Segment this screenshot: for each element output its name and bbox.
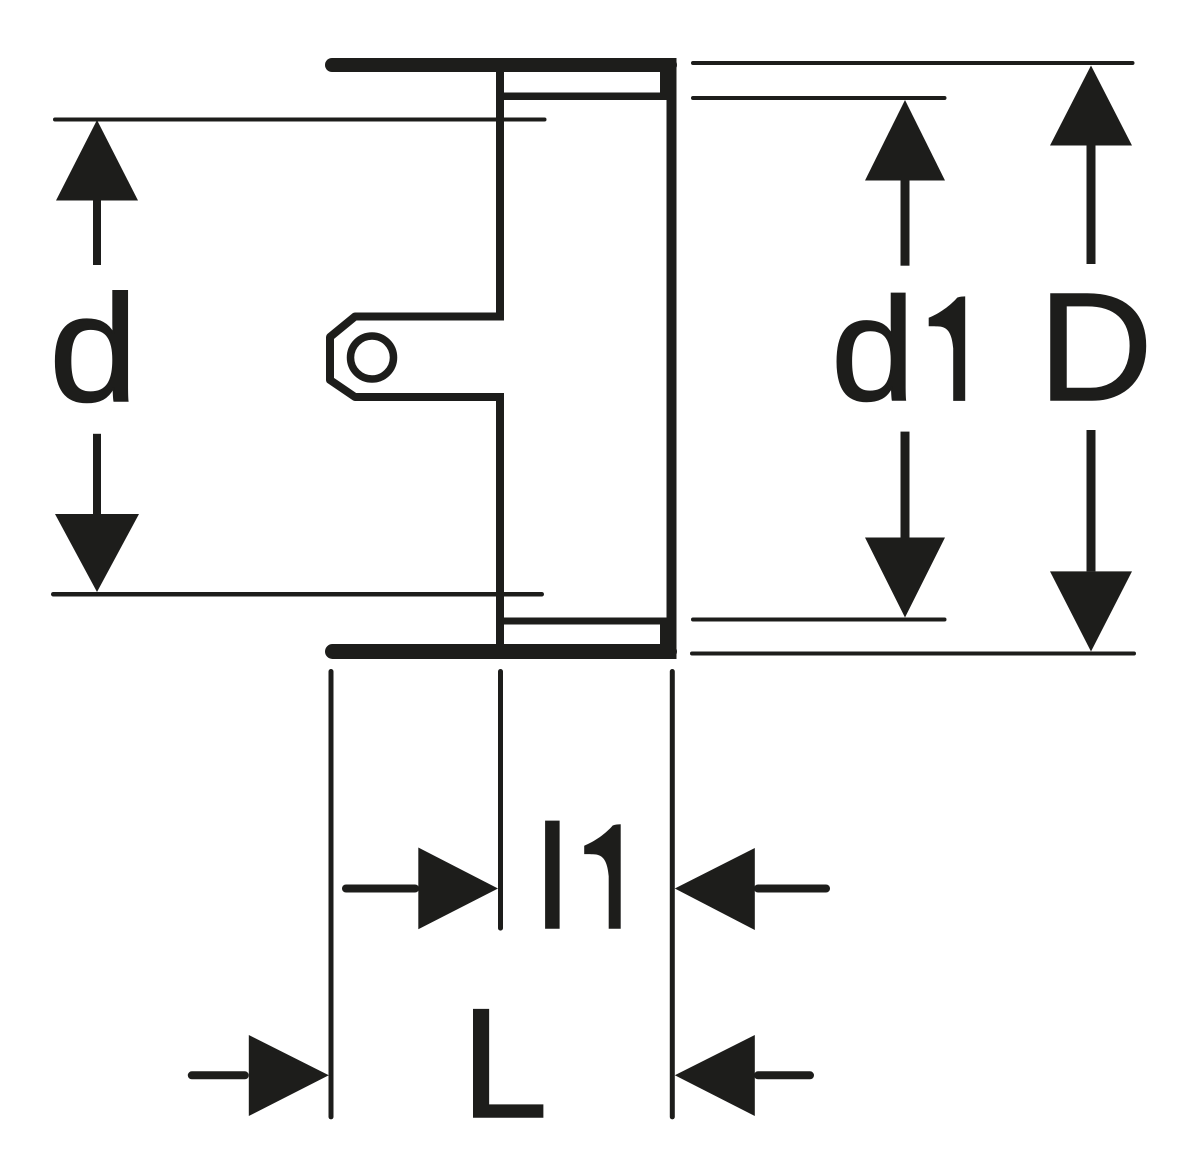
extension line right [670,669,675,1119]
svg-text:d: d [49,264,138,434]
dim line d top [53,118,547,122]
svg-text:D: D [1038,261,1153,433]
dim line d1 top [691,96,947,100]
dim line d1 bottom [691,618,947,622]
arrow L left [188,1071,249,1079]
arrow l1 right [675,848,755,930]
fitting inner bottom lip [500,618,671,625]
arrow D down [1087,430,1096,571]
fitting bottom wall [325,644,677,659]
fitting central web lower [496,393,504,659]
dim line d bottom [51,592,544,597]
arrow d1 up [865,100,945,181]
fitting inner bottom lip end connector [660,618,669,651]
svg-text:l: l [536,796,569,960]
extension line left [329,669,334,1119]
extension line middle [498,669,503,931]
latch hook [330,317,500,398]
arrow D up [1050,66,1132,146]
arrow d down [93,434,101,514]
fitting central web upper [496,58,504,321]
arrow d1 down [901,432,910,539]
arrow L right [675,1035,755,1116]
latch circle [351,336,394,379]
fitting right wall [667,58,677,659]
svg-text:d: d [831,268,915,432]
fitting inner top lip end connector [660,65,669,100]
arrow l1 left [342,885,419,893]
svg-text:L: L [461,977,548,1151]
fitting inner top lip [500,93,671,101]
dim line D top [691,61,1135,65]
fitting top wall [325,58,677,72]
arrow d up [56,120,138,201]
dim line D bottom [690,652,1136,656]
